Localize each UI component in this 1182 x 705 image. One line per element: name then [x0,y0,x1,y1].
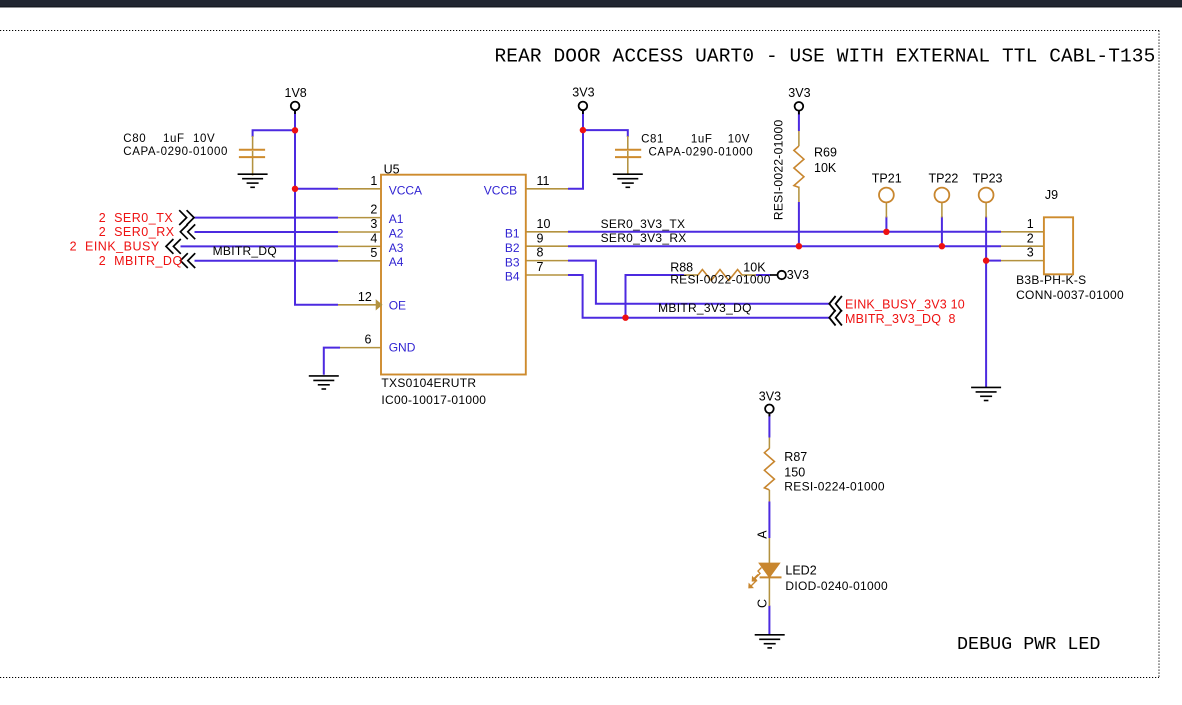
svg-text:TP21: TP21 [872,172,902,186]
power symbol 3V3 (C81) [572,86,594,114]
svg-text:RESI-0022-01000: RESI-0022-01000 [772,120,786,221]
svg-text:EINK_BUSY_3V3 10: EINK_BUSY_3V3 10 [845,298,965,312]
svg-text:CAPA-0290-01000: CAPA-0290-01000 [649,147,754,159]
svg-text:GND: GND [389,340,416,354]
wire R69 top [798,111,800,132]
resistor R88 [698,270,742,281]
wire TP21 drop [885,217,887,232]
top toolbar bar [0,0,1182,7]
ground (U5 GND) [309,376,339,389]
lead U5 pin8 [526,260,568,262]
svg-text:2 MBITR_DQ: 2 MBITR_DQ [99,254,183,268]
capacitor C80 [239,150,265,157]
svg-text:6: 6 [364,333,371,347]
svg-text:RESI-0022-01000: RESI-0022-01000 [670,273,771,287]
lead U5 pin2 [338,217,381,219]
wire SER0_3V3_TX row [568,231,1001,233]
OE input arrow [376,300,382,309]
junction C81 tap [580,127,586,133]
lead U5 pin7 [526,274,568,276]
svg-text:3: 3 [370,217,377,231]
capacitor C81 [615,150,641,157]
svg-text:MBITR_DQ: MBITR_DQ [213,244,277,258]
lead TP21 [885,203,887,218]
ground (TP23/J9) [971,387,1001,400]
lead C80 top [252,136,254,150]
svg-text:A2: A2 [389,226,404,240]
lead TP22 [941,203,943,218]
test point TP22 [935,188,950,203]
junction TP23/J9.3 [983,257,989,263]
svg-text:A3: A3 [389,241,404,255]
svg-text:J9: J9 [1045,188,1058,202]
svg-text:VCCB: VCCB [484,184,517,198]
svg-text:B1: B1 [505,227,520,241]
svg-text:7: 7 [537,260,544,274]
svg-text:1: 1 [1027,217,1034,231]
off-page chevron MBITR_DQ (in) [180,253,195,268]
svg-text:A4: A4 [389,255,404,269]
svg-text:10K: 10K [814,161,837,175]
junction R88/MBITR [622,315,628,321]
svg-text:SER0_3V3_RX: SER0_3V3_RX [601,231,687,245]
junction TP22/RX [939,243,945,249]
wire R69 bottom to RX row [798,202,800,246]
lead J9 pin3 [1001,260,1044,262]
wire B4 to MBITR_3V3_DQ [568,275,830,318]
svg-text:2 EINK_BUSY: 2 EINK_BUSY [70,240,160,254]
lead C80 bottom [252,151,254,176]
LED LED2 [748,563,781,588]
svg-text:A1: A1 [389,212,404,226]
wire C80 tap [253,130,295,137]
wire SER0_TX row [195,217,339,219]
svg-text:C801uF10V: C801uF10V [123,133,215,145]
svg-text:TXS0104ERUTR: TXS0104ERUTR [381,376,476,390]
lead U5 pin6 [340,347,381,349]
wire TP22 drop [941,217,943,247]
lead R88 right [742,274,757,276]
lead C81 top [627,136,629,150]
junction C80 tap [292,127,298,133]
lead U5 pin11 [526,188,568,190]
svg-text:R87: R87 [784,450,807,464]
svg-text:12: 12 [358,290,372,304]
resistor R87 [764,448,774,490]
power symbol 1V8 [285,86,307,114]
off-page chevron EINK_BUSY (in) [166,239,181,254]
svg-text:TP23: TP23 [973,172,1003,186]
svg-text:VCCA: VCCA [389,184,422,198]
svg-text:11: 11 [537,174,550,188]
lead LED2 cathode [768,577,770,606]
lead R87 top [768,438,770,449]
lead U5 pin12 [338,304,377,306]
svg-text:8: 8 [537,246,544,260]
junction R69/RX [796,243,802,249]
svg-text:B2: B2 [505,241,520,255]
lead TP23 [985,203,987,218]
off-page chevron SER0_TX (out) [179,210,194,225]
ground (C81) [613,174,643,187]
svg-text:2: 2 [1027,231,1034,245]
svg-text:10: 10 [537,217,551,231]
wire 1V8 rail to OE [295,111,338,305]
test point TP23 [979,188,994,203]
lead J9 pin1 [1001,231,1044,233]
svg-text:MBITR_3V3_DQ: MBITR_3V3_DQ [658,301,752,315]
svg-text:150: 150 [784,465,805,479]
wire LED cathode to ground [768,606,770,636]
wire EINK_BUSY row [181,245,339,247]
wire R87 to LED anode [768,502,770,539]
wire GND pin to ground [324,348,340,375]
svg-text:9: 9 [537,231,544,245]
lead R88 left [684,274,699,276]
lead U5 pin9 [526,245,568,247]
ground (LED2) [755,635,785,648]
wire R88 right to 3V3 [756,274,771,276]
svg-text:B4: B4 [505,270,520,284]
power symbol 3V3 (R69) [788,86,810,114]
svg-text:B3: B3 [505,255,520,269]
junction TP21/TX [883,229,889,235]
svg-text:3: 3 [1027,246,1034,260]
svg-text:2 SER0_RX: 2 SER0_RX [99,225,175,239]
off-page chevron SER0_RX (in) [180,224,195,239]
svg-text:1V8: 1V8 [285,86,307,100]
svg-text:RESI-0224-01000: RESI-0224-01000 [784,480,885,494]
power symbol 3V3 (LED) [759,389,781,416]
lead U5 pin4 [338,245,381,247]
connector J9 body [1044,217,1073,274]
svg-text:C: C [756,599,770,608]
svg-text:DEBUG PWR LED: DEBUG PWR LED [957,634,1100,655]
wire MBITR_DQ row [195,260,339,262]
svg-text:4: 4 [370,232,377,246]
svg-text:REAR DOOR ACCESS UART0 - USE W: REAR DOOR ACCESS UART0 - USE WITH EXTERN… [495,46,1156,68]
off-page chevron MBITR_3V3_DQ (in) [829,310,842,326]
svg-text:IC00-10017-01000: IC00-10017-01000 [381,393,486,407]
svg-text:1: 1 [370,174,377,188]
svg-text:C811uF10V: C811uF10V [641,134,750,146]
lead U5 pin1 [338,188,381,190]
wire C81 tap [583,130,628,137]
lead U5 pin5 [338,260,381,262]
svg-text:CONN-0037-01000: CONN-0037-01000 [1016,288,1124,302]
svg-text:R69: R69 [814,146,837,160]
svg-text:2: 2 [370,203,377,217]
svg-text:5: 5 [370,246,377,260]
svg-text:DIOD-0240-01000: DIOD-0240-01000 [785,579,888,593]
lead J9 pin2 [1001,245,1044,247]
test point TP21 [879,188,894,203]
lead R69 bottom [798,187,800,203]
wire VCCA row [295,188,338,190]
svg-text:3V3: 3V3 [788,86,810,100]
op-amp style IC body U5 [381,175,526,375]
lead C81 bottom [627,151,629,175]
lead R69 top [798,131,800,146]
off-page chevron EINK_BUSY_3V3 (in) [829,296,842,312]
svg-text:3V3: 3V3 [759,389,781,403]
wire 3V3 to R87 [768,413,770,438]
resistor R69 [794,146,804,187]
svg-text:B3B-PH-K-S: B3B-PH-K-S [1016,273,1086,287]
svg-text:MBITR_3V3_DQ 8: MBITR_3V3_DQ 8 [845,312,956,326]
power symbol 3V3 (R88) [770,268,809,282]
wire R88 to MBITR junction [626,275,685,318]
wire SER0_3V3_RX row [568,245,1001,247]
wire VCCB to 3V3 [568,111,583,189]
svg-text:U5: U5 [384,163,400,177]
lead U5 pin3 [338,231,381,233]
junction VCCA [292,186,298,192]
svg-text:2 SER0_TX: 2 SER0_TX [99,211,174,225]
svg-text:A: A [756,530,770,539]
wire TP23 drop to ground [985,217,987,388]
junction dots [292,127,990,321]
svg-text:CAPA-0290-01000: CAPA-0290-01000 [123,146,228,158]
wire B3 to EINK_BUSY_3V3 [568,261,830,304]
wire SER0_RX row [195,231,339,233]
svg-text:LED2: LED2 [785,564,816,578]
lead R87 bottom [768,490,770,502]
lead U5 pin10 [526,231,568,233]
svg-text:3V3: 3V3 [572,86,594,100]
svg-text:OE: OE [389,299,406,313]
svg-text:3V3: 3V3 [787,268,809,282]
svg-text:SER0_3V3_TX: SER0_3V3_TX [601,217,686,231]
lead LED2 anode [768,538,770,564]
ground (C80) [238,174,268,187]
wire J9 pin3 stub [986,260,1001,262]
svg-text:TP22: TP22 [929,172,959,186]
